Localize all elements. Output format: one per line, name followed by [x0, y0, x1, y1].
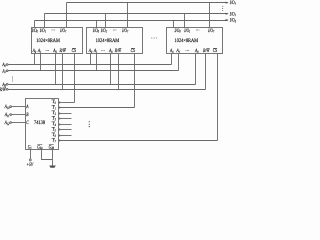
wire Y6 stub [59, 135, 72, 137]
wire U3 pin A9 [195, 54, 197, 85]
svg-text:A0: A0 [32, 48, 36, 54]
svg-text:G1: G1 [28, 144, 32, 150]
terminal A12 [10, 122, 12, 124]
svg-text:B: B [26, 112, 28, 118]
svg-text:A9: A9 [108, 48, 112, 54]
wire U2 I/O1 riser [105, 14, 107, 28]
svg-text:⋯: ⋯ [45, 48, 49, 54]
svg-text:R/W: R/W [0, 87, 6, 93]
wire U1 pin A0 [34, 54, 36, 65]
wire G2B to ground [52, 150, 54, 166]
wire Y5 stub [59, 129, 72, 131]
svg-text:1024×8RAM: 1024×8RAM [96, 38, 120, 44]
svg-text:I/O1: I/O1 [100, 28, 107, 34]
pin tick Y7 [59, 139, 61, 141]
arrow I/O0 [226, 19, 229, 21]
wire I/O1 bus [45, 13, 228, 15]
wire U2 pin CS to Y1 [134, 54, 136, 108]
wire U1 I/O0 riser [34, 21, 36, 28]
dots Y routes vertical [89, 121, 90, 122]
wire Y0 to U1 CS [59, 102, 75, 104]
svg-text:I/O0: I/O0 [92, 28, 99, 34]
wire U1 pin A1 [40, 54, 42, 71]
wire U2 pin A0 [90, 54, 92, 65]
dots A bus vertical [12, 77, 13, 78]
svg-text:R/W: R/W [114, 48, 122, 54]
svg-text:A11: A11 [4, 112, 9, 118]
terminal R/W [6, 88, 8, 90]
overline U3 W [207, 47, 209, 49]
wire A12 input [12, 122, 26, 124]
svg-text:A0: A0 [169, 48, 173, 54]
U1 pin labels bottom [32, 48, 76, 54]
ground symbol [49, 166, 56, 168]
svg-text:⋯: ⋯ [185, 48, 189, 54]
wire I/O7 bus [67, 2, 228, 4]
svg-text:A9: A9 [53, 48, 57, 54]
pin tick Y5 [59, 128, 61, 130]
wire U2 I/O0 riser [96, 21, 98, 28]
U2 pin labels bottom [88, 48, 135, 54]
svg-text:CS: CS [131, 48, 136, 54]
labels Y0-Y7 [53, 99, 56, 143]
wire A1 bus [9, 70, 179, 72]
svg-text:I/O7: I/O7 [229, 0, 236, 6]
wire I/O0 bus [35, 20, 228, 22]
pin tick Y6 [59, 134, 61, 136]
pin tick Y4 [59, 123, 61, 125]
arrow I/O7 [226, 2, 229, 4]
terminal A0 [6, 64, 8, 66]
svg-text:A1: A1 [176, 48, 180, 54]
U2 pin labels top [92, 28, 128, 34]
svg-text:R/W: R/W [202, 48, 210, 54]
U1 pin labels top [31, 28, 66, 34]
wire Y2 stub [59, 113, 72, 115]
svg-text:CS: CS [72, 48, 77, 54]
dots I/O bus vertical [222, 6, 223, 7]
wire Y7 to U3 CS [59, 140, 218, 142]
svg-text:I/O0: I/O0 [229, 18, 236, 24]
svg-text:A1: A1 [2, 68, 6, 74]
terminal A10 [10, 106, 12, 108]
wire U2 I/O7 riser [127, 3, 129, 28]
svg-text:CS: CS [213, 48, 218, 54]
decoder U4 74138 box [26, 99, 59, 150]
wire U3 pin R/W [205, 54, 207, 90]
wire U3 I/O7 riser [209, 3, 211, 28]
overline U2 CS [131, 47, 135, 49]
svg-text:A0: A0 [2, 62, 6, 68]
wire U2 pin A1 [96, 54, 98, 71]
svg-text:I/O1: I/O1 [39, 28, 46, 34]
svg-text:G2B: G2B [49, 144, 54, 150]
wire A10 input [12, 106, 26, 108]
wire Y3 stub [59, 118, 72, 120]
RAM chip U2 box [87, 28, 143, 54]
wire Y1 to U2 CS [59, 107, 135, 109]
terminal A9 [6, 83, 8, 85]
terminal A11 [10, 114, 12, 116]
overline G2B [49, 144, 54, 146]
svg-text:I/O7: I/O7 [207, 28, 214, 34]
svg-text:1024×8RAM: 1024×8RAM [36, 38, 60, 44]
svg-text:74138: 74138 [34, 120, 45, 126]
wire R/W bus [9, 89, 206, 91]
wire U3 pin CS to Y7 [217, 54, 219, 141]
RAM chip U1 box [32, 28, 83, 54]
U3 pin labels top [174, 28, 215, 34]
U3 pin labels bottom [169, 48, 217, 54]
wire U1 I/O7 riser [66, 3, 68, 28]
svg-text:R/W: R/W [59, 48, 67, 54]
wire A0 bus [9, 64, 172, 66]
pin tick Y0 [59, 101, 61, 103]
svg-text:I/O0: I/O0 [174, 28, 181, 34]
RAM chip U3 box [167, 28, 223, 54]
wire G1 to +5V [30, 150, 32, 160]
overline left R/W [4, 86, 6, 88]
overline G2A [37, 144, 42, 146]
wire A11 input [12, 114, 26, 116]
svg-text:⋯: ⋯ [51, 28, 55, 34]
wire U3 pin A1 [178, 54, 180, 71]
svg-text:A12: A12 [4, 120, 10, 126]
svg-text:I/O1: I/O1 [229, 11, 236, 17]
svg-text:A0: A0 [88, 48, 92, 54]
overline U3 CS [213, 47, 217, 49]
svg-text:I/O1: I/O1 [184, 28, 191, 34]
svg-text:1024×8RAM: 1024×8RAM [175, 38, 199, 44]
overline U1 W [64, 47, 66, 49]
wire A9 bus [9, 84, 196, 86]
terminal +5V [29, 159, 31, 161]
wire U2 pin A9 [110, 54, 112, 85]
svg-text:G2A: G2A [37, 144, 43, 150]
svg-text:⋯: ⋯ [196, 28, 200, 34]
wire Y4 stub [59, 124, 72, 126]
svg-text:+5V: +5V [27, 162, 34, 168]
wire U1 I/O1 riser [44, 14, 46, 28]
svg-text:A1: A1 [93, 48, 97, 54]
pin tick Y3 [59, 117, 61, 119]
wire U1 pin A9 [55, 54, 57, 85]
wire U1 pin CS to Y0 [74, 54, 76, 103]
wire U1 pin R/W [62, 54, 64, 90]
overline U2 W [119, 47, 121, 49]
pin tick Y2 [59, 112, 61, 114]
overlines Y0-Y7 [51, 100, 54, 138]
wire U3 I/O1 riser [184, 14, 186, 28]
svg-text:A10: A10 [4, 104, 10, 110]
svg-text:I/O7: I/O7 [59, 28, 66, 34]
wire U3 pin A0 [171, 54, 173, 65]
svg-text:I/O7: I/O7 [121, 28, 128, 34]
dots between U2 and U3 [151, 38, 152, 39]
wire G2A down [42, 150, 53, 160]
svg-text:⋯: ⋯ [113, 28, 117, 34]
pin tick Y1 [59, 106, 61, 108]
arrow I/O1 [226, 13, 229, 15]
svg-text:I/O0: I/O0 [31, 28, 38, 34]
terminal A1 [6, 70, 8, 72]
overline U1 CS [72, 47, 76, 49]
svg-text:A1: A1 [37, 48, 41, 54]
svg-text:⋯: ⋯ [101, 48, 105, 54]
wire U2 pin R/W [118, 54, 120, 90]
wire U3 I/O0 riser [173, 21, 175, 28]
svg-text:A9: A9 [194, 48, 198, 54]
svg-text:C: C [26, 120, 29, 126]
